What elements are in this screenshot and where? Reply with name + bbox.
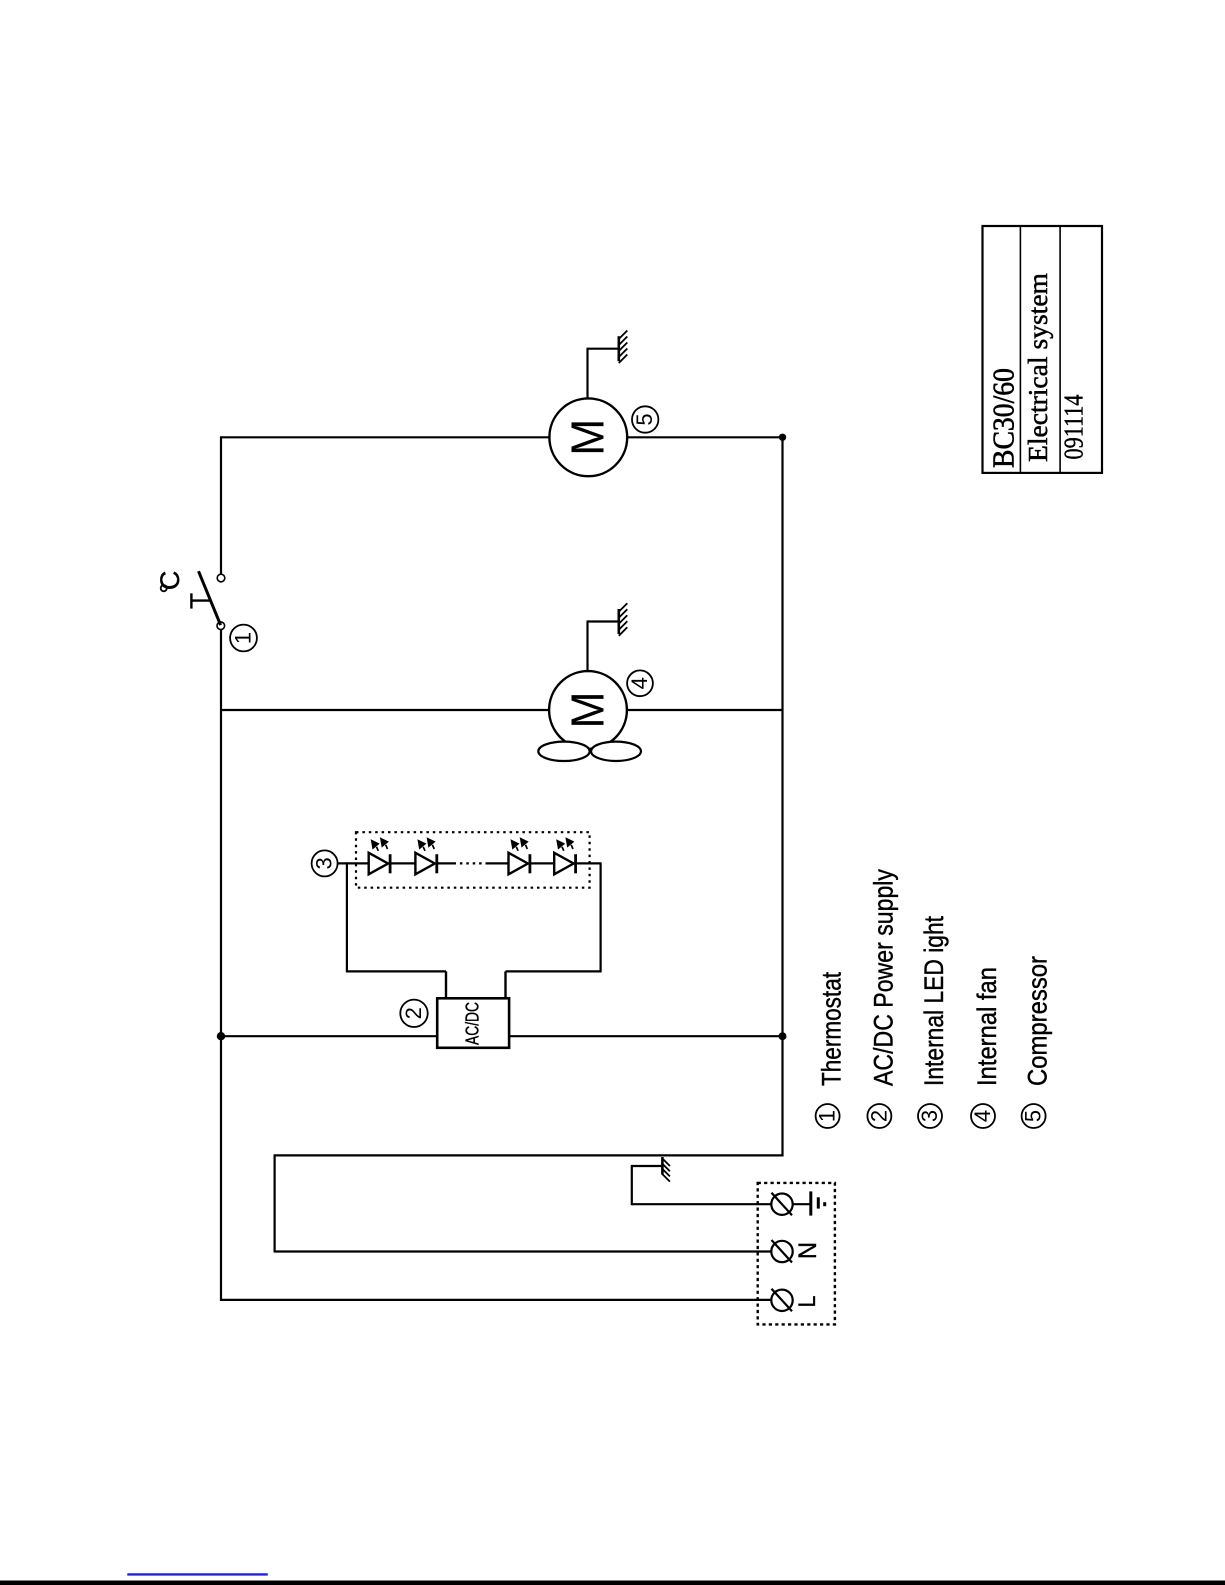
svg-text:Internal fan: Internal fan (972, 967, 1002, 1086)
wire LED left leg down (346, 862, 348, 971)
legend item 4 Internal fan (970, 967, 1002, 1128)
svg-text:M: M (562, 419, 614, 456)
svg-text:1: 1 (815, 1110, 840, 1122)
svg-text:Internal LED ight: Internal LED ight (919, 916, 949, 1086)
svg-text:5: 5 (1021, 1110, 1046, 1122)
wire D2 to dots (437, 862, 454, 864)
legend item 2 AC/DC Power supply (866, 869, 898, 1128)
thermostat switch 1 contact top (217, 574, 225, 582)
LED D4 (554, 837, 575, 874)
svg-text:4: 4 (627, 677, 652, 689)
svg-text:L: L (794, 1296, 821, 1308)
wire D4 out right (576, 862, 601, 864)
LED D3 (509, 837, 530, 874)
thermostat actuator T bar (190, 593, 192, 608)
wire LED right leg down (599, 862, 601, 971)
page bottom edge line (0, 1581, 1225, 1585)
svg-text:3: 3 (312, 857, 337, 869)
svg-text:°C: °C (155, 571, 185, 594)
junction dot right bus AC/DC row (779, 1032, 787, 1040)
wire left bus below thermostat (220, 630, 222, 1301)
wire M4 ground stub (586, 622, 588, 673)
svg-text:091114: 091114 (1059, 394, 1089, 459)
label circled 1 thermostat (230, 625, 257, 652)
legend item 1 Thermostat (815, 972, 847, 1128)
label circled 5 compressor (632, 406, 658, 432)
wire L row to terminal (220, 1299, 771, 1301)
wire D1-D2 (390, 862, 416, 864)
svg-text:M: M (561, 692, 613, 729)
wire into AC/DC left (445, 971, 447, 999)
wire D3-D4 (530, 862, 555, 864)
title block frame (983, 226, 1103, 473)
svg-text:AC/DC: AC/DC (463, 1002, 483, 1045)
svg-text:Compressor: Compressor (1023, 956, 1053, 1086)
legend item 5 Compressor (1021, 956, 1053, 1128)
junction dot left bus AC/DC row (217, 1032, 225, 1040)
wire right bus (781, 437, 783, 1156)
wire LED right leg horizontal (506, 970, 602, 972)
svg-text:Electrical system: Electrical system (1023, 273, 1053, 462)
wire into LED string (338, 862, 370, 864)
svg-text:2: 2 (866, 1110, 891, 1122)
svg-text:AC/DC Power supply: AC/DC Power supply (868, 869, 898, 1086)
earth symbol at PE terminal (793, 1191, 825, 1215)
wire PE terminal to ground stub (632, 1203, 772, 1205)
svg-text:4: 4 (970, 1110, 995, 1122)
fan blade left (538, 742, 589, 761)
junction dot top right corner (779, 434, 786, 441)
svg-text:3: 3 (917, 1110, 942, 1122)
svg-text:1: 1 (231, 632, 256, 644)
wire compressor branch (M5 row) (220, 436, 783, 438)
compressor motor M5 (549, 398, 627, 476)
wire N leg vertical (274, 1154, 276, 1252)
ground symbol at M5 (619, 331, 628, 364)
wire fan branch (M4 row) (221, 709, 783, 711)
label circled 2 power supply (400, 1000, 427, 1027)
wire L1 top segment (left bus above thermostat) (220, 437, 222, 574)
LED D2 (415, 837, 436, 874)
wire N row to terminal (275, 1250, 772, 1252)
svg-text:N: N (794, 1242, 822, 1259)
label circled 4 fan (627, 670, 653, 696)
wire AC/DC branch row (221, 1035, 783, 1037)
fan motor M4 (549, 671, 627, 749)
terminal N (771, 1240, 792, 1263)
svg-text:BC30/60: BC30/60 (985, 368, 1020, 468)
svg-text:2: 2 (401, 1007, 426, 1019)
blue underline mark (127, 1573, 267, 1575)
terminal block dotted enclosure (758, 1183, 835, 1325)
LED string 3 dotted enclosure (356, 832, 590, 888)
thermostat switch 1 contact bottom (217, 622, 225, 630)
thermostat switch 1 blade (199, 571, 221, 625)
ground symbol at PE stub (662, 1157, 670, 1182)
svg-text:5: 5 (632, 413, 657, 425)
legend item 3 Internal LED ight (917, 916, 949, 1128)
label circled 3 LED light (312, 850, 338, 876)
terminal PE (771, 1193, 792, 1216)
wire dots to D3 (487, 862, 510, 864)
AC/DC power supply 2 box (437, 998, 509, 1048)
LED D1 (369, 837, 390, 874)
ground symbol at M4 (619, 603, 628, 636)
svg-text:Thermostat: Thermostat (817, 972, 847, 1086)
wire M5 ground stub (586, 349, 588, 400)
terminal L (771, 1289, 792, 1312)
wire return row to N leg (275, 1154, 784, 1156)
fan blade right (591, 742, 641, 761)
wire LED left leg horizontal (346, 970, 446, 972)
wire dotted continuation (454, 862, 488, 864)
wire into AC/DC right (504, 971, 506, 999)
